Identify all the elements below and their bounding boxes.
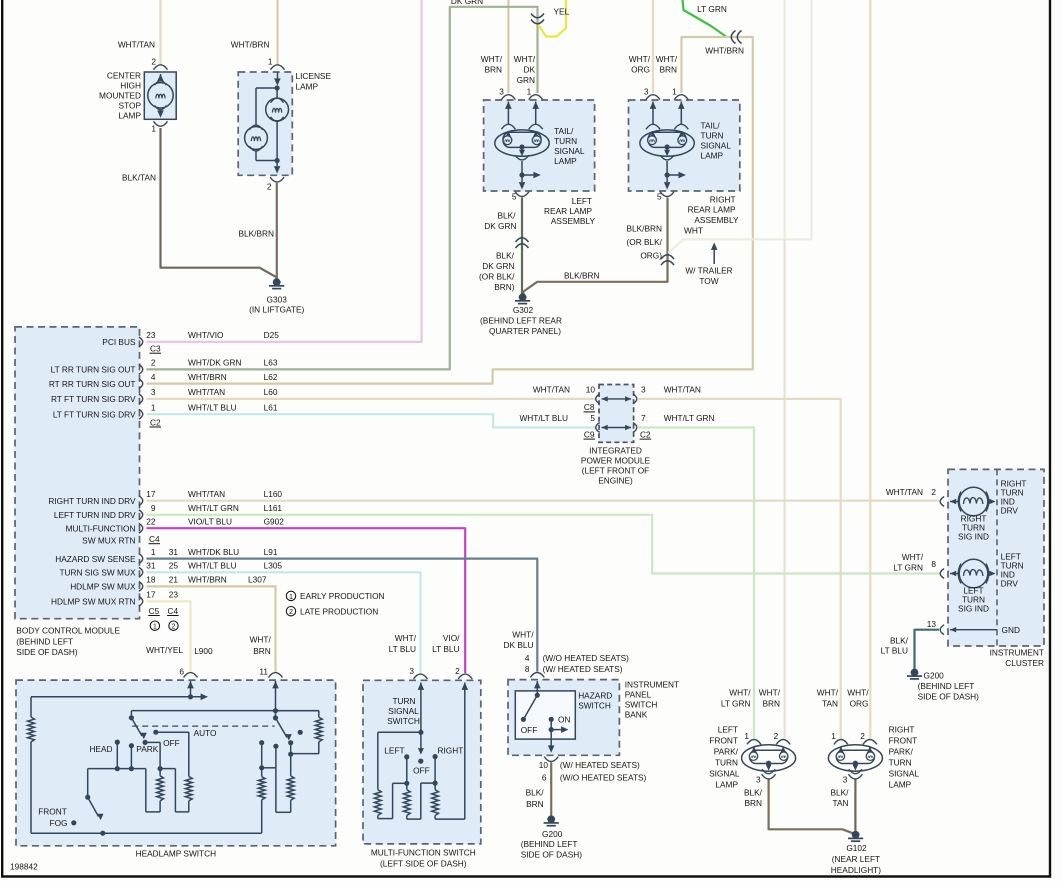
resistor MFS 2 [403,790,410,816]
BCM pin 1/31 HAZARD SW SENSE [139,554,143,564]
svg-text:HIGH: HIGH [120,81,141,91]
svg-text:SIDE OF DASH): SIDE OF DASH) [918,692,980,702]
mechanical link dashed [132,725,274,727]
svg-text:INSTRUMENT: INSTRUMENT [625,679,679,689]
svg-text:RT FT TURN SIG DRV: RT FT TURN SIG DRV [51,394,136,404]
splice on left rear ground wire [516,238,529,242]
svg-text:BRN: BRN [484,65,502,75]
svg-text:MULTI-FUNCTION: MULTI-FUNCTION [66,524,136,534]
svg-text:SIG IND: SIG IND [958,604,989,614]
branch to AUTO resistor bottom [160,768,175,770]
svg-text:RT RR TURN SIG OUT: RT RR TURN SIG OUT [49,379,136,389]
svg-text:SIGNAL: SIGNAL [554,146,585,156]
svg-text:ENGINE): ENGINE) [598,475,633,485]
svg-text:LT BLU: LT BLU [389,644,416,654]
svg-text:(W/O HEATED SEATS): (W/O HEATED SEATS) [560,773,647,783]
svg-text:D25: D25 [264,330,280,340]
svg-text:WHT: WHT [684,226,703,236]
svg-text:1: 1 [289,592,293,601]
lamp license lamp [238,72,292,175]
svg-text:DK GRN: DK GRN [484,221,516,231]
svg-text:PARK: PARK [136,744,158,754]
svg-text:LT BLU: LT BLU [881,646,908,656]
svg-text:WHT/LT BLU: WHT/LT BLU [188,561,237,571]
svg-text:ORG: ORG [850,699,869,709]
svg-text:11: 11 [259,667,268,677]
svg-text:BLK/BRN: BLK/BRN [564,271,600,281]
svg-text:FRONT: FRONT [38,807,67,817]
svg-text:(BEHIND LEFT: (BEHIND LEFT [521,839,578,849]
svg-text:5: 5 [512,192,517,202]
svg-text:BLK/: BLK/ [526,787,545,797]
svg-text:3: 3 [756,775,761,785]
svg-text:WHT/BRN: WHT/BRN [705,46,744,56]
svg-text:(W/ HEATED SEATS): (W/ HEATED SEATS) [560,760,640,770]
svg-text:DRV: DRV [1001,506,1019,516]
svg-text:BLK/BRN: BLK/BRN [626,224,662,234]
multi-function switch pin 2 [458,674,472,679]
svg-text:(OR BLK/: (OR BLK/ [479,272,515,282]
headlamp switch auto/off lever [131,710,318,712]
ground G303 [273,278,281,286]
resistor right section middle [287,776,294,800]
wire BLK/LT BLU cluster pin 13 to G200 [915,630,940,670]
svg-text:10: 10 [539,760,549,770]
svg-text:WHT/: WHT/ [729,688,751,698]
svg-text:1: 1 [151,124,156,134]
svg-text:DK BLU: DK BLU [504,640,534,650]
splice on right rear ground wire [661,255,674,259]
splice inline connector LT GRN to WHT/BRN [731,31,735,44]
svg-text:5: 5 [590,413,595,423]
svg-text:WHT/: WHT/ [656,54,678,64]
svg-text:3: 3 [409,666,414,676]
svg-text:1: 1 [151,402,156,412]
wire BLK/BRN hazard switch to G200 [550,763,552,817]
svg-text:EARLY PRODUCTION: EARLY PRODUCTION [300,591,385,601]
svg-text:LT RR TURN SIG OUT: LT RR TURN SIG OUT [51,365,136,375]
svg-text:WHT/TAN: WHT/TAN [664,384,701,394]
BCM pin 23 PCI BUS [139,337,143,347]
svg-text:3: 3 [843,775,848,785]
BCM pin 9 LEFT TURN IND DRV [139,510,143,520]
svg-text:31: 31 [169,547,179,557]
svg-text:(OR BLK/: (OR BLK/ [626,237,662,247]
BCM pin 1 LT FT TURN SIG DRV [139,409,143,419]
svg-text:FRONT: FRONT [709,736,738,746]
svg-text:BRN: BRN [659,65,677,75]
svg-text:WHT/: WHT/ [817,688,839,698]
wire WHT/VIO D25 PCI bus [147,0,422,342]
svg-text:ORG: ORG [631,65,650,75]
svg-text:2: 2 [931,487,936,497]
svg-text:TURN: TURN [889,758,912,768]
svg-text:TURN SIG SW MUX: TURN SIG SW MUX [59,568,136,578]
svg-text:5: 5 [657,192,662,202]
svg-text:WHT/: WHT/ [759,688,781,698]
resistor AUTO position [185,776,192,800]
svg-text:2: 2 [172,622,176,631]
svg-text:HAZARD: HAZARD [578,690,612,700]
lamp LEFT front park/turn signal lamp [742,745,796,771]
wire BLK/BRN left front lamp pin 3 to G102 [769,780,856,835]
svg-text:MOUNTED: MOUNTED [99,91,141,101]
svg-text:HDLMP SW MUX RTN: HDLMP SW MUX RTN [51,597,136,607]
svg-text:AUTO: AUTO [194,728,217,738]
svg-text:(W/ HEATED SEATS): (W/ HEATED SEATS) [543,664,623,674]
svg-text:1: 1 [268,57,273,67]
svg-text:INSTRUMENT: INSTRUMENT [990,648,1044,658]
svg-text:WHT/BRN: WHT/BRN [188,372,227,382]
svg-text:1: 1 [672,87,677,97]
svg-text:C8: C8 [584,402,595,412]
svg-text:BRN): BRN) [494,282,515,292]
svg-text:LT GRN: LT GRN [893,563,923,573]
svg-text:PARK/: PARK/ [714,747,739,757]
BCM pin 18/21 HDLMP SW MUX [139,582,143,592]
svg-text:WHT/: WHT/ [481,54,503,64]
hazard switch pin 8/4 [530,673,544,678]
contact AUTO left section [153,730,158,735]
pin 2 return line [464,683,466,820]
svg-text:OFF: OFF [163,738,180,748]
svg-text:L160: L160 [264,489,283,499]
IPM pin 3 [633,394,637,404]
wire BLK/DK GRN from left rear lamp pin 5 to G302 [521,198,523,295]
svg-text:(W/O HEATED SEATS): (W/O HEATED SEATS) [543,653,630,663]
svg-text:HAZARD SW SENSE: HAZARD SW SENSE [55,554,136,564]
splice YEL inline connector on L63 [531,14,544,18]
svg-text:2: 2 [774,731,779,741]
svg-text:9: 9 [151,503,156,513]
svg-text:3: 3 [499,87,504,97]
svg-text:PCI BUS: PCI BUS [102,337,136,347]
svg-text:DK: DK [523,65,535,75]
cluster pin 2 [940,497,944,507]
svg-text:SWITCH: SWITCH [625,699,658,709]
svg-text:FRONT: FRONT [889,736,918,746]
svg-text:21: 21 [169,575,179,585]
svg-text:WHT/: WHT/ [847,688,869,698]
svg-text:L63: L63 [264,358,278,368]
svg-text:WHT/LT BLU: WHT/LT BLU [519,413,568,423]
svg-text:TURN: TURN [392,696,415,706]
svg-text:HEAD: HEAD [89,744,112,754]
svg-text:LAMP: LAMP [296,82,319,92]
wire WHT/TAN from IPM pin 3 to right front lamp pin 1 [637,399,841,739]
svg-text:C4: C4 [168,606,179,616]
svg-text:1: 1 [744,731,749,741]
svg-text:C9: C9 [584,429,595,439]
wire WHT trailer tow net [668,0,811,253]
svg-text:BLK/: BLK/ [744,788,763,798]
svg-text:LT FT TURN SIG DRV: LT FT TURN SIG DRV [53,410,136,420]
svg-text:LICENSE: LICENSE [296,71,332,81]
svg-text:8: 8 [931,559,936,569]
cluster pin 13 GND [940,625,944,635]
wire BLK/BRN from license lamp pin 2 to G303 [276,183,278,280]
svg-text:WHT/LT GRN: WHT/LT GRN [664,413,715,423]
wire WHT/BRN to license lamp pin 1 [276,0,278,65]
svg-text:CLUSTER: CLUSTER [1005,658,1044,668]
BCM early/late production marks [150,621,159,630]
svg-text:(BEHIND LEFT REAR: (BEHIND LEFT REAR [480,316,562,326]
switch hazard switch / instrument panel switch bank [508,680,619,756]
svg-text:HEADLIGHT): HEADLIGHT) [831,865,881,875]
svg-text:WHT/DK BLU: WHT/DK BLU [188,547,239,557]
svg-text:C3: C3 [150,344,161,354]
svg-text:GND: GND [1002,625,1020,635]
svg-text:WHT/: WHT/ [395,633,417,643]
svg-text:VIO/: VIO/ [443,633,460,643]
svg-text:L161: L161 [264,503,283,513]
lamp right rear tail/turn signal lamp [629,100,740,191]
svg-text:LT GRN: LT GRN [697,4,727,14]
svg-text:198842: 198842 [10,862,38,872]
svg-text:7: 7 [641,413,646,423]
svg-text:13: 13 [927,619,937,629]
wire WHT/LT BLU L305 BCM to multi-function switch pin 3 [147,572,421,673]
svg-text:L307: L307 [248,575,267,585]
wire WHT/BRN from top to left front lamp pin 2 [783,239,785,738]
svg-text:C2: C2 [640,429,651,439]
wire WHT/ORG to right rear lamp pin 3 [652,0,654,93]
svg-text:WHT/: WHT/ [250,635,272,645]
svg-text:2: 2 [455,666,460,676]
svg-text:L60: L60 [264,387,278,397]
svg-text:2: 2 [289,607,293,616]
svg-text:SWITCH: SWITCH [578,700,611,710]
BCM pin 17 RIGHT TURN IND DRV [139,496,143,506]
wire WHT/LT BLU L61 BCM to IPM pin 5 [147,414,596,427]
module instrument cluster [948,469,1044,646]
svg-text:C5: C5 [149,606,160,616]
resistor MFS 3 [432,790,439,816]
svg-text:SIGNAL: SIGNAL [889,769,920,779]
svg-text:TOW: TOW [699,276,718,286]
wire WHT/BRN to left rear lamp pin 3 [507,0,509,93]
svg-text:LT GRN: LT GRN [721,699,751,709]
svg-text:2: 2 [860,731,865,741]
svg-text:ASSEMBLY: ASSEMBLY [694,215,739,225]
svg-text:G200: G200 [542,829,563,839]
svg-text:STOP: STOP [119,101,142,111]
svg-text:HDLMP SW MUX: HDLMP SW MUX [70,582,136,592]
svg-text:(BEHIND LEFT: (BEHIND LEFT [16,637,73,647]
svg-text:(IN LIFTGATE): (IN LIFTGATE) [249,305,304,315]
svg-text:RIGHT: RIGHT [889,725,915,735]
svg-text:BODY CONTROL MODULE: BODY CONTROL MODULE [16,626,120,636]
svg-text:WHT/: WHT/ [512,629,534,639]
svg-text:QUARTER PANEL): QUARTER PANEL) [489,326,561,336]
IPM row 2 internal [602,425,608,430]
svg-text:LATE PRODUCTION: LATE PRODUCTION [300,607,378,617]
svg-text:POWER MODULE: POWER MODULE [581,455,651,465]
svg-text:SIGNAL: SIGNAL [388,706,419,716]
svg-text:31: 31 [146,561,156,571]
svg-text:FOG: FOG [50,818,68,828]
ground G102 [852,831,860,839]
svg-text:(LEFT FRONT OF: (LEFT FRONT OF [582,465,649,475]
svg-text:WHT/TAN: WHT/TAN [118,40,155,50]
svg-text:WHT/TAN: WHT/TAN [533,384,570,394]
lamp left rear tail/turn signal lamp [484,100,595,191]
IPM pin 7 C2 [633,423,637,433]
wire WHT/BRN L307 BCM to headlamp switch pin 11 [147,586,276,671]
contact dots right section [288,740,293,745]
head/park rail [88,768,146,770]
svg-text:MULTI-FUNCTION SWITCH: MULTI-FUNCTION SWITCH [371,847,476,857]
ground G302 [519,293,527,301]
hazard switch internals [534,681,541,688]
svg-text:LAMP: LAMP [118,111,141,121]
svg-text:LEFT: LEFT [384,745,404,755]
BCM pin 4 RT RR TURN SIG OUT [139,379,143,389]
svg-text:G303: G303 [267,295,288,305]
svg-text:WHT/LT BLU: WHT/LT BLU [188,402,237,412]
legend early production [286,591,295,600]
svg-text:1: 1 [527,87,532,97]
svg-text:22: 22 [146,516,156,526]
svg-text:TURN: TURN [701,131,724,141]
headlamp switch bottom rail [31,832,262,834]
lamp RIGHT front park/turn signal lamp [828,745,882,771]
arrow w/ trailer tow [713,249,715,264]
svg-text:BANK: BANK [625,709,648,719]
svg-text:WHT/BRN: WHT/BRN [188,575,227,585]
wire WHT/DK GRN net L63 from BCM to left rear lamp pin 1 [147,7,538,370]
svg-text:ORG): ORG) [640,251,662,261]
svg-text:WHT/VIO: WHT/VIO [188,330,224,340]
wire WHT/BRN net L62 from BCM via connector to right rear lamp pin 1 [147,37,753,384]
svg-text:TURN: TURN [715,758,738,768]
wire WHT/ORG from top to right front lamp pin 2 [869,0,871,739]
svg-text:WHT/LT GRN: WHT/LT GRN [188,503,239,513]
switch headlamp switch [16,680,336,846]
resistor OFF position [157,776,164,801]
svg-text:WHT/: WHT/ [629,54,651,64]
svg-text:REAR LAMP: REAR LAMP [544,206,592,216]
svg-text:3: 3 [644,87,649,97]
svg-text:25: 25 [169,561,179,571]
svg-text:L900: L900 [194,646,213,656]
svg-text:2: 2 [267,182,272,192]
svg-text:BLK/BRN: BLK/BRN [238,229,274,239]
svg-text:4: 4 [525,653,530,663]
svg-text:WHT/TAN: WHT/TAN [188,489,225,499]
IPM pin 10 C8 [596,394,600,404]
svg-text:BRN: BRN [526,799,544,809]
svg-text:TAN: TAN [822,699,838,709]
svg-text:G102: G102 [846,843,867,853]
svg-text:2: 2 [151,358,156,368]
svg-text:6: 6 [179,667,184,677]
svg-text:17: 17 [146,590,156,600]
svg-text:REAR LAMP: REAR LAMP [688,205,736,215]
BCM pin 2 LT RR TURN SIG OUT [139,365,143,375]
headlamp switch pin 11 [269,673,283,678]
svg-text:BLK/: BLK/ [496,251,515,261]
svg-text:BRN: BRN [253,646,271,656]
resistor MFS 1 [374,790,381,816]
svg-text:G200: G200 [924,671,945,681]
svg-text:BLK/: BLK/ [890,636,909,646]
BCM pin 3 RT FT TURN SIG DRV [139,394,143,404]
svg-text:LAMP: LAMP [554,156,577,166]
svg-text:SWITCH: SWITCH [387,716,420,726]
BCM pin 17/23 HDLMP SW MUX RTN [139,596,143,606]
wire WHT branch from top [783,0,785,239]
svg-text:(NEAR LEFT: (NEAR LEFT [832,854,880,864]
LEFT contact [404,754,409,759]
ground G200 hazard [547,815,555,823]
svg-text:LEFT TURN IND DRV: LEFT TURN IND DRV [54,510,136,520]
svg-text:TURN: TURN [554,136,577,146]
switch multi-function switch (turn signal) [363,680,481,844]
svg-text:3: 3 [151,387,156,397]
resistor right section left [258,777,265,800]
svg-text:WHT/: WHT/ [902,552,924,562]
wire WHT/YEL L900 BCM to headlamp switch pin 6 [147,601,191,671]
svg-text:SIGNAL: SIGNAL [709,769,740,779]
svg-text:RIGHT TURN IND DRV: RIGHT TURN IND DRV [48,496,136,506]
wire LT GRN from top to inline connector [683,0,727,37]
svg-text:WHT/BRN: WHT/BRN [231,40,270,50]
svg-text:(BEHIND LEFT: (BEHIND LEFT [918,681,975,691]
lamp CHMSL (center high mounted stop lamp) [144,72,176,119]
multi-function switch pin 3 [414,674,428,679]
RIGHT contact [433,754,438,759]
svg-text:ON: ON [558,715,570,725]
svg-text:LAMP: LAMP [715,780,738,790]
svg-text:23: 23 [146,330,156,340]
svg-text:SW MUX RTN: SW MUX RTN [82,536,135,546]
wire WHT/LT GRN L161 BCM to instrument cluster pin 8 [147,515,941,574]
svg-text:BRN: BRN [744,798,762,808]
svg-text:BLK/: BLK/ [831,788,850,798]
svg-text:ASSEMBLY: ASSEMBLY [551,216,596,226]
svg-text:DK GRN: DK GRN [482,261,514,271]
wire WHT/TAN to CHMSL pin 2 [159,0,161,65]
indicator bulb 1 [959,487,988,516]
cluster pin 8 [940,569,944,579]
svg-text:1: 1 [151,547,156,557]
wire YEL from top to splice [539,0,567,37]
svg-text:LEFT: LEFT [572,196,592,206]
svg-text:L61: L61 [264,402,278,412]
svg-text:6: 6 [542,773,547,783]
wire WHT/DK BLU L91 BCM to hazard switch [147,559,538,672]
svg-text:TAIL/: TAIL/ [554,126,574,136]
HEAD contact [115,740,120,745]
svg-text:DK GRN: DK GRN [451,0,483,6]
svg-text:INTEGRATED: INTEGRATED [589,445,642,455]
svg-text:W/ TRAILER: W/ TRAILER [685,266,732,276]
wire WHT/TAN L160 BCM to instrument cluster pin 2 [147,500,941,502]
svg-text:LAMP: LAMP [701,151,724,161]
svg-text:PANEL: PANEL [625,689,652,699]
rail to resistor 1 [378,731,421,733]
svg-text:1: 1 [831,731,836,741]
svg-text:L91: L91 [264,547,278,557]
IPM pin 5 C9 [596,423,600,433]
headlamp switch internals [187,681,194,688]
right section lever (pin 11) [272,681,279,688]
svg-text:YEL: YEL [554,7,570,17]
svg-text:SIDE OF DASH): SIDE OF DASH) [521,850,583,860]
svg-text:C2: C2 [150,417,161,427]
svg-text:2: 2 [151,57,156,67]
